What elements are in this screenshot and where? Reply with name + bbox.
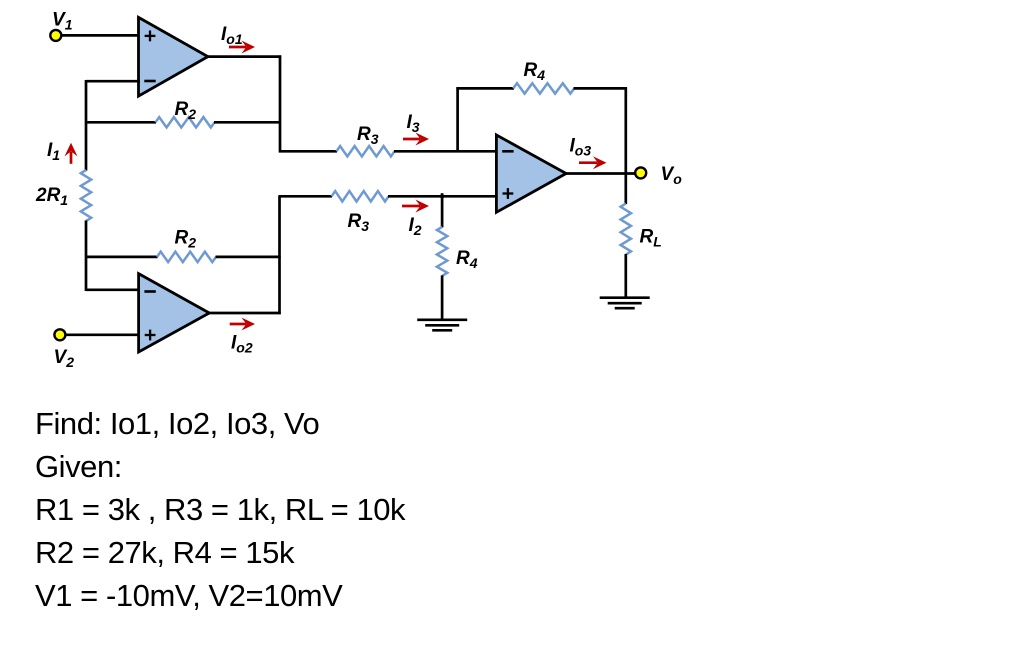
current arrow Io1 bbox=[229, 41, 255, 54]
junction node C bbox=[440, 194, 444, 198]
wire U2 output bbox=[208, 312, 281, 315]
wire R2 top left stub bbox=[86, 121, 156, 124]
wire U1 inverting input to left rail bbox=[86, 80, 140, 83]
current arrow Io3 bbox=[579, 156, 607, 169]
wire R2 top right stub to node A bbox=[214, 121, 281, 124]
wire R4 feedback top left stub bbox=[456, 87, 514, 90]
current arrow I3 bbox=[403, 133, 429, 146]
current arrow I2 bbox=[402, 200, 429, 213]
terminal V1 bbox=[50, 30, 61, 41]
wire R3 top left stub bbox=[279, 150, 337, 153]
wire R3 top to U3 inverting input bbox=[394, 150, 497, 153]
wire RL bottom segment bbox=[624, 254, 627, 298]
wire node A rail (U1 output down to R3 top wire) bbox=[279, 55, 282, 152]
resistor R2 (top) bbox=[156, 117, 215, 127]
wire R4 shunt bottom segment bbox=[441, 275, 444, 319]
wire V2 to U2 non-inverting input bbox=[65, 333, 140, 336]
current arrow Io2 bbox=[230, 318, 255, 331]
wire U3 output bbox=[564, 172, 637, 175]
resistor R2 (bottom) bbox=[157, 252, 216, 262]
resistor R3 (top) bbox=[337, 146, 395, 156]
wire RL top segment bbox=[624, 174, 627, 205]
resistor 2R1 bbox=[81, 170, 91, 221]
wire R3 bottom left stub from node B bbox=[279, 195, 333, 198]
wire R2 bottom right stub to node B bbox=[216, 256, 281, 259]
op-amp U1 bbox=[139, 17, 208, 96]
wire U1 output bbox=[206, 55, 281, 58]
terminal Vo bbox=[635, 167, 646, 178]
ground (RL) bbox=[600, 298, 650, 309]
resistor R4 (shunt) bbox=[437, 227, 447, 276]
wire R4 feedback left leg bbox=[456, 87, 459, 151]
wire R4 feedback right leg to output node bbox=[624, 87, 627, 174]
wire left rail upper segment bbox=[85, 80, 88, 171]
wire R4 feedback top right stub bbox=[574, 87, 628, 90]
ground (R4 shunt) bbox=[417, 320, 467, 331]
op-amp U3 bbox=[496, 135, 566, 212]
terminal V2 bbox=[54, 329, 65, 340]
wire R4 shunt top segment bbox=[441, 193, 444, 227]
wire node B rail (R3 bottom wire down to U2 output) bbox=[278, 196, 281, 315]
current arrow I1 bbox=[65, 143, 78, 164]
wire R3 bottom to U3 non-inverting input bbox=[388, 195, 497, 198]
wire to U2 inverting input bbox=[86, 288, 140, 291]
op-amp U2 bbox=[139, 274, 210, 352]
resistor RL bbox=[621, 204, 631, 255]
resistor R3 (bottom) bbox=[332, 191, 389, 201]
wire V1 to U1 non-inverting input bbox=[61, 34, 140, 37]
wire left rail lower segment bbox=[85, 221, 88, 292]
resistor R4 (feedback) bbox=[513, 83, 574, 93]
wire R2 bottom left stub bbox=[86, 256, 158, 259]
